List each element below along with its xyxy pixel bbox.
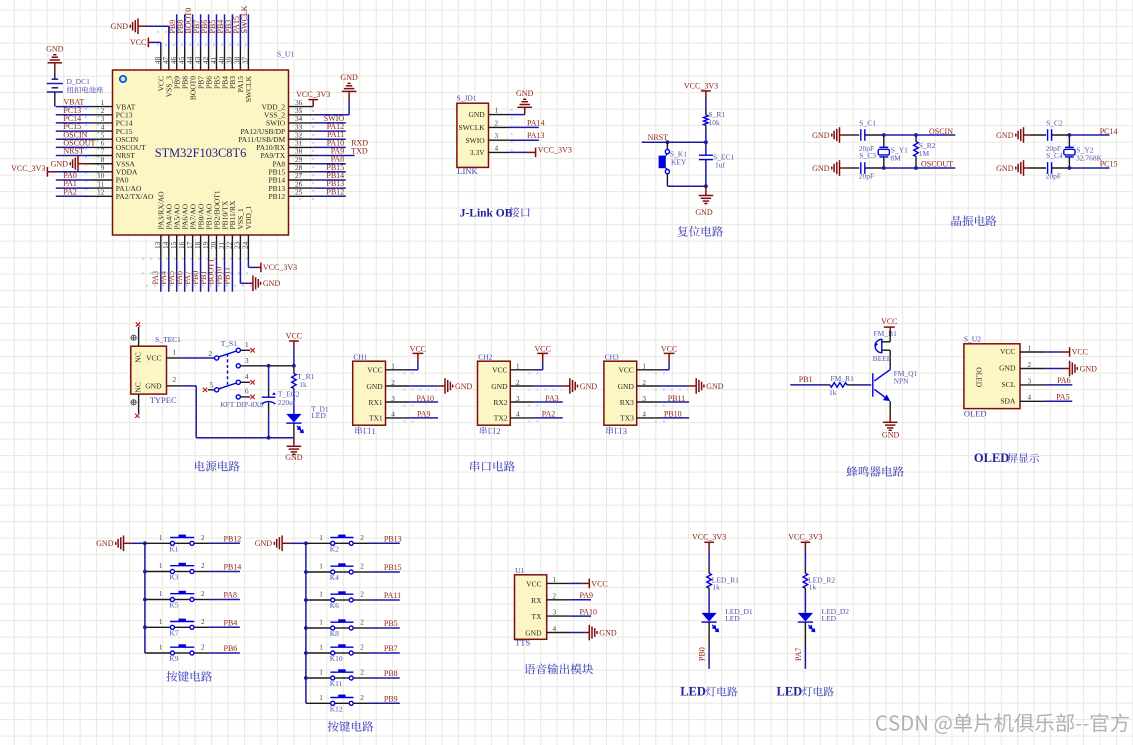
power VCC_3V3 at MCU pin 36 VDD_2: [308, 99, 318, 101]
svg-text:RX3: RX3: [620, 398, 634, 407]
wire net NRST to pin 7: [56, 155, 90, 157]
svg-text:GND: GND: [996, 131, 1014, 140]
svg-text:32.768K: 32.768K: [1076, 154, 1103, 163]
node junctions crystal S_Y2: [1068, 133, 1072, 137]
wire net PA10 from U1 pin3: [571, 615, 591, 617]
svg-text:PB11: PB11: [223, 267, 232, 285]
svg-text:PC14: PC14: [1100, 127, 1118, 136]
wire bus to key K10: [306, 652, 331, 654]
key K3: [174, 571, 190, 573]
key K12: [335, 702, 350, 704]
svg-text:27: 27: [295, 172, 303, 180]
svg-text:1: 1: [372, 426, 376, 436]
svg-text:GND: GND: [145, 382, 162, 391]
MCU pin 15 PA5/AO stub: [176, 235, 178, 260]
ground at MCU pin 23 VSS_1: [239, 260, 241, 283]
CH1 pin 4 TX1 stub: [386, 417, 410, 419]
svg-text:PB6: PB6: [224, 644, 238, 653]
wire net PA13 from S_JD1 pin3: [510, 139, 539, 141]
svg-text:25: 25: [295, 189, 303, 197]
wire net PB6 from key K9: [209, 652, 240, 654]
svg-text:VCC_3V3: VCC_3V3: [788, 533, 822, 542]
svg-text:2: 2: [360, 669, 364, 677]
caption voice output module: [524, 663, 593, 674]
MCU pin 29 PA8 stub: [289, 163, 314, 165]
svg-text:2: 2: [495, 119, 499, 127]
switch T_S1 terminal 3: [236, 364, 240, 368]
svg-text:KFT DIP-8X8: KFT DIP-8X8: [220, 400, 264, 409]
svg-text:15: 15: [170, 241, 178, 249]
svg-text:VCC_3V3: VCC_3V3: [538, 146, 572, 155]
svg-text:38: 38: [234, 56, 242, 64]
wire net PB13 from pin 26: [313, 187, 346, 189]
svg-text:VDD_1: VDD_1: [244, 206, 253, 230]
wire net OSCIN to pin 5: [56, 138, 90, 140]
capacitor T_EC2 220uf: [268, 366, 270, 390]
CH2 pin 2 GND stub: [510, 385, 534, 387]
svg-text:PA6: PA6: [1057, 376, 1071, 385]
svg-text:PA7: PA7: [794, 648, 803, 662]
svg-text:14: 14: [162, 241, 170, 249]
ground at S_C3: [839, 160, 841, 176]
svg-text:GND: GND: [882, 430, 900, 439]
wire S_C1 to OSCIN: [865, 134, 884, 136]
svg-text:3: 3: [1028, 377, 1032, 385]
power VCC at MCU pin 48: [147, 38, 149, 48]
wire net PA4 from pin 14: [168, 260, 170, 291]
svg-text:1: 1: [159, 644, 163, 652]
ground at MCU pin 35 VSS_2: [313, 114, 349, 116]
wire bus to key K3: [145, 571, 171, 573]
svg-text:45: 45: [178, 56, 186, 64]
svg-text:K4: K4: [330, 573, 339, 582]
svg-text:S_C2: S_C2: [1046, 119, 1063, 128]
svg-text:2: 2: [553, 592, 557, 600]
svg-text:TX3: TX3: [620, 414, 634, 423]
caption reset circuit: [678, 226, 724, 237]
svg-text:3.3V: 3.3V: [470, 148, 485, 157]
svg-text:GND: GND: [812, 131, 830, 140]
wire net PB4 from key K7: [209, 626, 240, 628]
svg-text:CH3: CH3: [605, 352, 619, 361]
svg-text:PB12: PB12: [269, 192, 286, 201]
key K1: [174, 542, 190, 544]
ground below reset circuit: [705, 186, 707, 195]
svg-text:2: 2: [201, 562, 205, 570]
svg-text:3: 3: [245, 357, 249, 365]
svg-text:22: 22: [226, 241, 234, 249]
svg-text:S_C4: S_C4: [1046, 151, 1063, 160]
svg-text:8: 8: [101, 156, 105, 164]
wire net PB1: [790, 384, 823, 386]
svg-text:SWIO: SWIO: [466, 136, 486, 145]
power VCC at S_U2 pin1: [1069, 347, 1071, 357]
svg-text:GND: GND: [491, 382, 508, 391]
power VCC above CH3: [664, 352, 675, 354]
svg-text:1k: 1k: [829, 388, 837, 397]
svg-text:SWCLK: SWCLK: [458, 123, 485, 132]
crystal S_Y1 8M: [883, 135, 885, 147]
svg-text:SDA: SDA: [1000, 397, 1016, 406]
svg-text:K7: K7: [169, 629, 178, 638]
svg-text:PB11: PB11: [668, 394, 686, 403]
wire net PB1 from pin 19: [208, 260, 210, 291]
MCU pin 44 BOOT0 stub: [192, 47, 194, 71]
svg-text:PB8: PB8: [384, 669, 398, 678]
svg-text:3: 3: [553, 609, 557, 617]
MCU pin 23 VSS_1 stub: [239, 235, 241, 260]
switch T_S1 terminal 1: [236, 348, 240, 352]
svg-text:NRST: NRST: [648, 133, 669, 142]
OLED connector S_U2 body: [964, 344, 1020, 409]
svg-text:PB10: PB10: [664, 410, 682, 419]
wire CH3 pin1 to VCC: [660, 369, 669, 371]
svg-text:7: 7: [101, 148, 105, 156]
power VCC_3V3 above LED_R1: [704, 541, 714, 543]
connector S_TEC1 TYPEC body: [131, 346, 167, 394]
svg-text:2: 2: [201, 590, 205, 598]
svg-text:GND: GND: [96, 539, 114, 548]
svg-text:3: 3: [642, 395, 646, 403]
resistor T_R1 1k: [293, 368, 295, 374]
svg-text:44: 44: [186, 56, 194, 64]
svg-text:TYPEC: TYPEC: [150, 395, 177, 405]
CH3 pin 3 RX3 stub: [637, 401, 661, 403]
wire net PB11 from pin 22: [231, 260, 233, 291]
wire S_C3 to OSCOUT: [865, 167, 884, 169]
wire net PB6 to pin 42: [208, 14, 210, 46]
capacitor S_C4 20pF: [1030, 167, 1046, 169]
ground at S_C1: [839, 127, 841, 143]
MCU U1 selection dots: [86, 32, 313, 286]
S_U2 pin 1 VCC stub: [1020, 351, 1045, 353]
svg-text:32: 32: [295, 131, 303, 139]
CH3 selection dots: [655, 373, 688, 421]
svg-text:OSCOUT: OSCOUT: [921, 160, 953, 169]
svg-text:VCC_3V3: VCC_3V3: [263, 263, 297, 272]
svg-text:1k: 1k: [299, 380, 307, 389]
svg-text:RX1: RX1: [369, 398, 383, 407]
svg-text:LINK: LINK: [457, 166, 478, 176]
power VCC_3V3 at S_JD1 pin4: [535, 148, 537, 158]
svg-text:34: 34: [295, 115, 303, 123]
svg-text:OLED: OLED: [974, 451, 1009, 465]
node junctions crystal S_Y1: [882, 133, 886, 137]
key K2: [335, 542, 350, 544]
ground at MCU pin 8 VSSA: [77, 156, 79, 172]
wire VCC_3V3 to LED_R2: [804, 551, 806, 567]
switch T_S1 terminal 6: [236, 395, 240, 399]
svg-text:TX: TX: [532, 612, 543, 621]
ground below power circuit: [293, 438, 295, 447]
wire S_U2 pin2 to ground: [1045, 368, 1063, 370]
wire net PA11 from key K6: [369, 599, 400, 601]
MCU pin 12 PA2/TX/AO stub: [90, 195, 113, 197]
crystal S_Y2 32.768K: [1068, 135, 1070, 147]
wire LED_D1 to net PB0: [708, 623, 710, 649]
wire emitter to ground: [889, 401, 891, 413]
MCU pin 19 PB1/AO stub: [208, 235, 210, 260]
svg-text:GND: GND: [580, 382, 598, 391]
resistor LED_R2 1k: [804, 567, 806, 573]
wire net PA2 from CH2 pin4: [534, 417, 563, 419]
svg-text:47: 47: [162, 56, 170, 64]
MCU pin 41 PB5 stub: [216, 47, 218, 71]
key K10: [335, 652, 350, 654]
wire net PA11 from pin 32: [313, 138, 346, 140]
svg-text:3: 3: [495, 132, 499, 140]
wire ground to battery: [54, 63, 56, 72]
svg-text:S_U1: S_U1: [277, 49, 294, 58]
wire S_JD1 pin1 to ground: [510, 114, 525, 116]
svg-text:GND: GND: [695, 208, 713, 217]
svg-text:PB12: PB12: [326, 187, 344, 196]
svg-text:3: 3: [101, 115, 105, 123]
wire net PB7 from key K10: [369, 652, 400, 654]
resistor S_R2 1M: [915, 135, 917, 142]
svg-text:1: 1: [319, 644, 323, 652]
wire net PA8 from key K5: [209, 599, 240, 601]
svg-text:STM32F103C8T6: STM32F103C8T6: [155, 146, 247, 160]
svg-text:24: 24: [242, 241, 250, 249]
svg-text:VCC: VCC: [591, 579, 607, 588]
MCU pin 13 PA3/RX/AO stub: [160, 235, 162, 260]
MCU pin 16 PA6/AO stub: [184, 235, 186, 260]
svg-text:4: 4: [553, 625, 557, 633]
svg-text:17: 17: [186, 241, 194, 249]
svg-text:3: 3: [623, 426, 627, 436]
caption key circuit left: [166, 671, 212, 682]
wire net PB9 from key K12: [369, 702, 400, 704]
MCU pin 30 PA9/TX stub: [289, 155, 314, 157]
svg-text:T_S1: T_S1: [221, 339, 238, 348]
svg-text:28: 28: [295, 164, 303, 172]
svg-text:5: 5: [101, 131, 105, 139]
svg-text:GND: GND: [996, 164, 1014, 173]
key K8: [335, 627, 350, 629]
svg-text:PA2/TX/AO: PA2/TX/AO: [116, 192, 154, 201]
wire LED_D2 to net PA7: [804, 623, 806, 649]
ground feeding key column: [281, 536, 283, 552]
caption serial circuit: [470, 461, 515, 472]
ground above battery D_DC1: [48, 62, 63, 64]
chip S_U1 body STM32F103C8T6: [113, 70, 289, 235]
S_JD1 pin 4 3.3V stub: [489, 151, 510, 153]
wire net BOOT0 to pin 44: [192, 14, 194, 46]
svg-text:PB13: PB13: [384, 535, 402, 544]
TYPEC shield pad top: [131, 335, 136, 340]
wire S_R1 to NRST node: [705, 131, 707, 142]
svg-text:FM_B1: FM_B1: [874, 329, 898, 338]
svg-text:VCC_3V3: VCC_3V3: [296, 90, 330, 99]
buzzer FM_B1 BEEP: [875, 339, 882, 352]
svg-text:TX2: TX2: [494, 414, 508, 423]
MCU pin 28 PB15 stub: [289, 171, 314, 173]
svg-text:K2: K2: [330, 545, 339, 554]
svg-text:1: 1: [245, 341, 249, 349]
ground below buzzer: [883, 421, 898, 423]
MCU pin 25 PB12 stub: [289, 195, 314, 197]
svg-text:NC: NC: [134, 352, 143, 362]
wire bus to key K6: [306, 599, 331, 601]
svg-text:GND: GND: [599, 628, 617, 637]
wire bus to key K11: [306, 677, 331, 679]
svg-text:PB7: PB7: [384, 644, 398, 653]
svg-text:19: 19: [202, 241, 210, 249]
wire net PA0 to pin 10: [56, 179, 90, 181]
capacitor S_EC1 1uf: [705, 142, 707, 155]
wire T_R1 to LED: [293, 392, 295, 414]
ground above S_JD1 pin1: [517, 106, 532, 108]
svg-text:PA11: PA11: [384, 591, 401, 600]
wire net PB13 from key K2: [369, 542, 400, 544]
MCU pin 48 VCC stub: [160, 47, 162, 71]
key K6: [335, 599, 350, 601]
wire S_JD1 pin4 to VCC_3V3: [510, 151, 528, 153]
svg-text:K8: K8: [330, 629, 339, 638]
power VCC_3V3 at MCU pin 24 VDD_1: [247, 260, 249, 267]
power VCC_3V3 above reset resistor: [701, 90, 711, 92]
svg-text:PB14: PB14: [224, 563, 242, 572]
wire net PB10 from pin 21: [224, 260, 226, 291]
switch T_S1 terminal 4: [236, 380, 240, 384]
svg-text:GND: GND: [1080, 364, 1098, 373]
U1 pin 4 GND stub: [547, 632, 571, 634]
svg-text:36: 36: [295, 99, 303, 107]
svg-text:6: 6: [101, 140, 105, 148]
MCU pin 2 PC13 stub: [90, 114, 113, 116]
svg-text:6: 6: [245, 388, 249, 396]
svg-text:16: 16: [178, 241, 186, 249]
wire VCC_3V3 to pin 9: [55, 171, 90, 173]
capacitor S_C2 20pF: [1030, 134, 1046, 136]
svg-text:4: 4: [495, 144, 499, 152]
S_U2 pin 3 SCL stub: [1020, 384, 1045, 386]
wire net PB8 to pin 45: [184, 14, 186, 46]
TYPEC pin 1 stub: [167, 357, 181, 359]
wire LED_R1 to LED_D1: [708, 592, 710, 613]
svg-text:2: 2: [173, 376, 177, 384]
svg-text:LED: LED: [822, 614, 837, 623]
svg-text:PB4: PB4: [224, 619, 238, 628]
svg-text:GND: GND: [51, 160, 69, 169]
caption key circuit right: [328, 721, 374, 732]
watermark CSDN: [876, 713, 1129, 734]
MCU pin 37 SWCLK stub: [247, 47, 249, 71]
CH1 pin 2 GND stub: [386, 385, 410, 387]
ground at MCU pin 47 VSS_3: [137, 18, 139, 34]
svg-text:21: 21: [218, 241, 226, 249]
svg-text:GND: GND: [255, 539, 273, 548]
svg-text:1: 1: [173, 348, 177, 356]
svg-text:20pF: 20pF: [859, 171, 874, 180]
svg-text:VCC: VCC: [881, 317, 897, 326]
svg-text:PA9: PA9: [580, 591, 594, 600]
wire LED to ground rail: [293, 423, 295, 438]
key S_K1 KEY: [666, 142, 668, 149]
S_U2 pin 2 GND stub: [1020, 368, 1045, 370]
resistor S_R1 10k: [705, 110, 707, 115]
svg-text:2: 2: [360, 534, 364, 542]
svg-text:2: 2: [360, 619, 364, 627]
switch T_S1 terminal 2: [215, 356, 219, 360]
chip pin-1 marker circle: [120, 76, 126, 82]
wire net PB10 from CH3 pin4: [660, 417, 689, 419]
MCU pin 4 PC15 stub: [90, 130, 113, 132]
svg-text:VCC: VCC: [1072, 348, 1088, 357]
svg-text:VCC: VCC: [492, 366, 507, 375]
CH2 pin 1 VCC stub: [510, 369, 534, 371]
svg-text:KEY: KEY: [671, 158, 687, 167]
svg-text:VCC: VCC: [661, 344, 677, 353]
caption crystal circuit: [951, 215, 996, 226]
svg-text:46: 46: [170, 56, 178, 64]
wire net PA15 to pin 38: [239, 14, 241, 46]
svg-text:PA14: PA14: [527, 118, 545, 127]
svg-text:GND: GND: [618, 382, 635, 391]
svg-text:VCC: VCC: [286, 331, 302, 340]
svg-text:PC15: PC15: [1100, 160, 1118, 169]
svg-text:S_JD1: S_JD1: [457, 94, 477, 103]
MCU pin 7 NRST stub: [90, 155, 113, 157]
svg-text:1: 1: [319, 591, 323, 599]
svg-text:33: 33: [295, 123, 303, 131]
switch T_S1 pole 2-1 lever: [219, 351, 237, 357]
MCU pin 11 PA1/AO stub: [90, 187, 113, 189]
svg-text:10: 10: [97, 172, 105, 180]
MCU pin 36 VDD_2 stub: [289, 106, 314, 108]
wire net PA10 from CH1 pin3: [409, 401, 438, 403]
wire net PB5 to pin 41: [216, 14, 218, 46]
U1 pin 2 RX stub: [547, 599, 571, 601]
wire net PB14 from pin 27: [313, 179, 346, 181]
transistor FM_Q1 NPN: [872, 373, 874, 396]
svg-text:RX2: RX2: [493, 398, 507, 407]
ground at CH2 pin2: [569, 378, 571, 394]
svg-text:1: 1: [642, 363, 646, 371]
key K4: [335, 571, 350, 573]
wire net VBAT to pin 1: [56, 106, 90, 108]
capacitor S_C3 20pF: [846, 167, 859, 169]
wire net PA9 from pin 30: [313, 155, 354, 157]
svg-text:2: 2: [201, 618, 205, 626]
svg-text:SWCLK: SWCLK: [240, 5, 249, 33]
svg-text:VCC: VCC: [130, 38, 146, 47]
key column bus wire: [144, 543, 146, 653]
svg-text:1M: 1M: [919, 149, 930, 158]
svg-text:D_DC1: D_DC1: [67, 77, 91, 86]
svg-text:TX1: TX1: [369, 414, 383, 423]
svg-text:VCC: VCC: [367, 366, 382, 375]
svg-text:2: 2: [201, 534, 205, 542]
svg-text:23: 23: [234, 241, 242, 249]
svg-text:40: 40: [218, 56, 226, 64]
svg-text:PA8: PA8: [224, 591, 238, 600]
svg-text:4: 4: [516, 411, 520, 419]
wire LED_R2 to LED_D2: [804, 592, 806, 613]
wire net PA9 from U1 pin2: [571, 599, 591, 601]
wire S_C2 to PC14: [1052, 134, 1070, 136]
svg-text:BEEP: BEEP: [873, 354, 891, 363]
wire CH2 pin2 to ground: [534, 385, 562, 387]
svg-text:VCC_3V3: VCC_3V3: [11, 164, 45, 173]
svg-text:PA5: PA5: [1056, 392, 1070, 401]
wire net PA10 from pin 31: [313, 146, 346, 148]
wire U1 pin1 to VCC: [571, 582, 582, 584]
CH3 pin 2 GND stub: [637, 385, 661, 387]
svg-text:PA9: PA9: [417, 410, 431, 419]
svg-text:GND: GND: [706, 382, 724, 391]
